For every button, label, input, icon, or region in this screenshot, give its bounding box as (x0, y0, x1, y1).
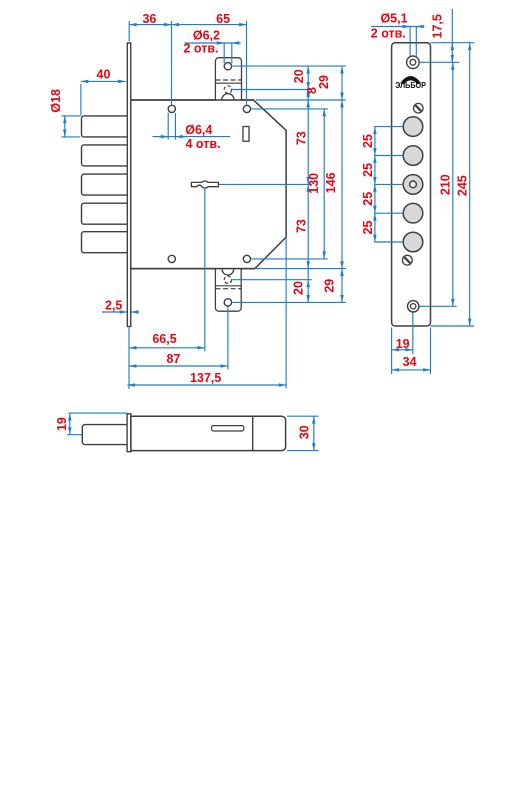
top bracket (strike tab) (215, 58, 241, 101)
Ø6,2 arrow right (232, 42, 241, 44)
ext circles left (374, 126, 403, 128)
dim 2,5 arrow left (102, 311, 127, 313)
dim 40 (81, 80, 126, 82)
svg-text:2,5: 2,5 (105, 298, 122, 312)
ext plate top right (431, 42, 475, 44)
dim Ø6,2 underline (185, 42, 241, 44)
Ø6,2 tangent right (231, 43, 233, 63)
bolt head 1 (403, 117, 423, 137)
Ø5,1 underline (371, 26, 424, 28)
svg-text:73: 73 (295, 131, 309, 145)
ext line bolt1 left top (80, 84, 82, 116)
ext line top-left hole up (171, 21, 173, 105)
dim 19 (392, 349, 413, 351)
dim 146 (341, 100, 343, 269)
bottom bracket (strike tab) (215, 268, 241, 311)
svg-text:29: 29 (322, 279, 336, 293)
ext keyhole right (219, 183, 312, 185)
dim 8 (307, 90, 309, 101)
bolt head 2 (403, 146, 423, 166)
ext keyhole down (204, 189, 206, 352)
bottom screw hole (408, 301, 419, 312)
Ø6,2 arrow left (216, 42, 224, 44)
svg-text:25: 25 (361, 163, 375, 177)
svg-text:2 отв.: 2 отв. (183, 42, 218, 56)
svg-text:Ø5,1: Ø5,1 (380, 12, 407, 26)
svg-text:Ø6,4: Ø6,4 (185, 123, 212, 137)
svg-text:210: 210 (439, 174, 453, 195)
top bracket dashed line (215, 79, 241, 81)
dim 245 (469, 43, 471, 326)
bolt head 5 (403, 232, 423, 252)
top bracket semicircle cutout (222, 94, 234, 100)
dim 34 (392, 369, 431, 371)
bolt 2 (82, 145, 128, 166)
dim 73 upper (307, 100, 309, 184)
faceplate front (392, 43, 431, 326)
hole bottom-left (Ø6,4) (168, 255, 175, 262)
Ø6,2 tangent left (223, 43, 225, 63)
ext side body bottom right (287, 450, 319, 452)
ext body top right (256, 99, 346, 101)
svg-text:137,5: 137,5 (190, 371, 221, 385)
dim 20 top (307, 66, 309, 89)
dim 25 chain (374, 127, 376, 156)
svg-text:146: 146 (324, 172, 338, 193)
svg-text:ЭЛЬБОР: ЭЛЬБОР (395, 81, 426, 90)
bolt 5 (82, 232, 128, 253)
hole top-right (Ø6,4) (243, 105, 250, 112)
top bracket solid line (215, 82, 241, 84)
bolt head 4 (403, 203, 423, 223)
bottom bracket solid line (215, 285, 241, 287)
keyhole (double-bit key profile) (191, 181, 218, 188)
ext plate bottom-left down (391, 328, 393, 375)
ext top holes right (251, 108, 328, 110)
side divider line (252, 416, 254, 450)
ext bottom bracket hole down (227, 307, 229, 370)
dim 29 bottom (341, 269, 343, 303)
ext top bracket hidden hole right (232, 89, 312, 91)
dim 2,5 arrow right (131, 311, 139, 313)
faceplate (edge view, left bar) (127, 43, 130, 327)
svg-text:17,5: 17,5 (431, 14, 445, 38)
bottom bracket dashed line (215, 288, 241, 290)
svg-text:25: 25 (361, 221, 375, 235)
svg-text:36: 36 (142, 12, 156, 26)
svg-text:65: 65 (216, 12, 230, 26)
Ø6,4 underline (153, 136, 231, 138)
body top edge redraw (131, 99, 254, 101)
side slot (212, 426, 244, 431)
Ø6,4 arrow left (156, 136, 168, 138)
dim 30 (313, 416, 315, 450)
svg-text:87: 87 (166, 352, 180, 366)
bottom bracket hole (224, 299, 231, 306)
side faceplate (127, 414, 131, 452)
dim 20 bottom (307, 280, 309, 303)
ext side plate top (69, 412, 128, 414)
top bracket hidden hole (dashed) (224, 86, 231, 93)
svg-text:130: 130 (307, 173, 321, 194)
Ø6,4 arrow right (175, 136, 187, 138)
Ø5,1 arrow left (402, 26, 410, 28)
logo dome (400, 76, 421, 84)
svg-text:66,5: 66,5 (152, 332, 176, 346)
ext Ø18 bottom (62, 136, 81, 138)
ext bottom hole right (420, 305, 457, 307)
svg-text:2 отв.: 2 отв. (371, 26, 406, 40)
svg-text:34: 34 (403, 355, 417, 369)
dim 137,5 (127, 384, 286, 386)
ext bottom holes right (251, 258, 328, 260)
svg-text:19: 19 (55, 417, 69, 431)
Ø5,1 tangent left (409, 27, 411, 56)
dim 19 side (69, 413, 71, 435)
ext side bolt axis (67, 434, 81, 436)
ext faceplate bottom down (128, 328, 130, 390)
dim 17,5 line (451, 9, 453, 43)
svg-text:245: 245 (455, 175, 469, 196)
dim 66,5 (129, 347, 205, 349)
Ø6,4 tangent right (174, 113, 176, 140)
top screw hole Ø5,1 (407, 56, 420, 69)
dim Ø18 (64, 116, 66, 137)
dim 130 (323, 109, 325, 259)
bottom bracket semicircle cutout (222, 269, 234, 275)
body bottom edge redraw (131, 268, 255, 270)
dim 36 (129, 24, 171, 26)
svg-text:Ø6,2: Ø6,2 (193, 29, 220, 43)
bottom bracket hidden hole (dashed) (224, 276, 231, 283)
bolt head 3 with pin (403, 175, 423, 195)
ext plate bottom right (431, 325, 475, 327)
hole bottom-right (Ø6,4) (243, 255, 250, 262)
svg-text:19: 19 (396, 337, 410, 351)
svg-text:25: 25 (361, 134, 375, 148)
ext line faceplate top (128, 21, 130, 42)
svg-text:29: 29 (317, 75, 331, 89)
screw top (414, 103, 424, 113)
dim 65 (172, 24, 247, 26)
lock body outline (131, 100, 286, 269)
Ø5,1 arrow right (416, 26, 424, 28)
Ø6,4 tangent left (167, 113, 169, 140)
ext plate bottom-right down (430, 328, 432, 375)
ext top bracket hole right (232, 65, 346, 67)
screw bottom (402, 255, 412, 265)
ext bottom bracket hidden hole right (232, 279, 312, 281)
Ø5,1 tangent right (415, 27, 417, 56)
dim 210 (452, 62, 454, 306)
side body (131, 416, 286, 450)
latch slot rectangle (243, 127, 249, 142)
ext line top-right hole up (246, 21, 248, 105)
svg-text:4 отв.: 4 отв. (185, 137, 220, 151)
ext bottom hole down (412, 313, 414, 355)
ext side body top right (287, 415, 319, 417)
dim 29 top (341, 66, 343, 100)
dim 73 lower (307, 184, 309, 268)
chain connector (307, 269, 309, 280)
svg-text:20: 20 (291, 281, 305, 295)
dim 87 (129, 365, 228, 367)
svg-text:Ø18: Ø18 (49, 89, 63, 113)
bolt 1 (82, 116, 128, 137)
side bolt (82, 425, 127, 445)
hole top-left (Ø6,4) (168, 105, 175, 112)
ext body bottom right (256, 268, 346, 270)
svg-text:25: 25 (361, 192, 375, 206)
svg-text:73: 73 (295, 219, 309, 233)
top bracket hole Ø6,2 (224, 62, 231, 69)
svg-text:30: 30 (297, 425, 311, 439)
ext body right edge down (285, 239, 287, 389)
ext Ø18 top (62, 115, 81, 117)
ext top hole right (419, 61, 459, 63)
svg-text:40: 40 (97, 68, 111, 82)
svg-text:20: 20 (292, 69, 306, 83)
bolt 3 (82, 174, 128, 195)
ext bottom bracket hole right (232, 301, 346, 303)
bolt 4 (82, 203, 128, 224)
